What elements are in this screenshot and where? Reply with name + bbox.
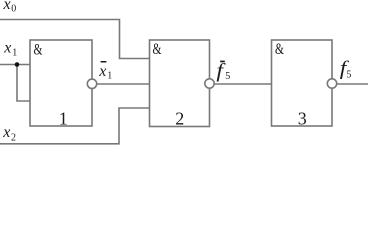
svg-text:x: x — [3, 0, 11, 13]
svg-text:1: 1 — [59, 108, 68, 128]
wire f5 output run to right edge — [332, 83, 368, 85]
svg-text:3: 3 — [298, 108, 307, 128]
gate U2 (NAND "2") body — [150, 40, 210, 127]
gate U1 (NAND "1") body — [30, 40, 92, 126]
svg-text:5: 5 — [346, 70, 351, 81]
wire x1 branch: down from junction into gate 1 pin 2 — [17, 65, 30, 102]
wire node x1bar: gate 1 output to gate 2 pin 2 — [92, 83, 150, 85]
label f5bar (with overbar) — [216, 60, 230, 82]
wire x0 net: horizontal run, drop at x=119.5, into gate 2 pin 1 — [0, 20, 150, 59]
svg-text:&: & — [34, 42, 43, 59]
svg-text:5: 5 — [225, 71, 230, 82]
label x1bar (with overbar) — [98, 61, 112, 82]
inversion bubble on gate 1 output — [87, 79, 96, 88]
svg-text:&: & — [275, 41, 284, 58]
svg-text:x: x — [98, 63, 106, 80]
label f5 — [340, 57, 352, 80]
wire x2 net: bottom run, rise at x=119, into gate 2 pin 3 — [0, 108, 150, 144]
junction dot on x1 net — [15, 62, 20, 67]
svg-text:1: 1 — [12, 48, 17, 59]
svg-text:1: 1 — [107, 71, 112, 82]
label x0 — [3, 0, 17, 15]
svg-text:0: 0 — [11, 4, 16, 15]
inversion bubble on gate 2 output — [205, 79, 214, 88]
wire x1 net: input run into gate 1 pin 1 — [0, 64, 30, 66]
svg-text:2: 2 — [11, 133, 16, 144]
label x1 — [3, 40, 17, 59]
wire node f5bar: gate 2 output to gate 3 input — [210, 83, 272, 85]
svg-text:&: & — [153, 41, 162, 58]
svg-text:x: x — [3, 40, 11, 57]
svg-text:2: 2 — [175, 108, 184, 128]
gate U3 (NAND "3") body — [272, 40, 333, 126]
inversion bubble on gate 3 output — [327, 79, 336, 88]
svg-text:x: x — [2, 124, 10, 141]
label x2 — [2, 124, 16, 144]
